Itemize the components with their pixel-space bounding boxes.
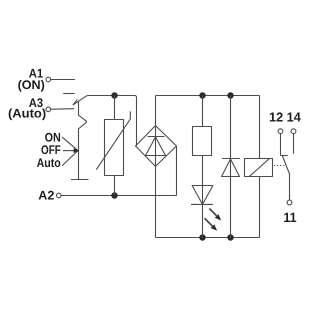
- switch S1 arm (Auto position): [73, 96, 89, 106]
- wire A2 lead: [62, 195, 177, 197]
- bridge rectifier diamond: [136, 126, 177, 167]
- switch contact tick: [74, 99, 78, 104]
- bridge inner diode cathode bar: [148, 136, 165, 138]
- mechanical link dotted: [274, 165, 284, 167]
- bridge inner diode triangle: [146, 137, 166, 156]
- wire bridge top output: [155, 96, 157, 126]
- svg-text:OFF: OFF: [41, 143, 61, 157]
- svg-text:12 14: 12 14: [269, 110, 302, 125]
- junction dot resistor tap: [199, 92, 205, 98]
- varistor bottom lead: [114, 176, 116, 196]
- diode bottom lead: [230, 177, 232, 238]
- wire contact 14: [293, 134, 295, 154]
- actuator base bar: [71, 179, 89, 181]
- wire resistor to LED: [202, 156, 204, 205]
- varistor body: [105, 120, 124, 176]
- terminal A1: [46, 77, 51, 82]
- relay coil K1 body: [245, 159, 273, 177]
- junction dot varistor bottom: [111, 192, 117, 198]
- terminal A2: [57, 193, 62, 198]
- ON pointer line: [62, 137, 78, 151]
- resistor top lead: [202, 96, 204, 127]
- LED bottom lead: [202, 204, 204, 237]
- LED light arrow 2: [205, 218, 218, 231]
- svg-text:11: 11: [283, 210, 297, 225]
- contact arm to 11: [283, 156, 290, 200]
- svg-text:(ON): (ON): [18, 78, 45, 92]
- varistor diagonal with tail: [96, 111, 130, 169]
- wire left top bus: [88, 96, 137, 147]
- bridge inner diode lead: [155, 126, 157, 167]
- OFF pointer line: [63, 150, 78, 152]
- svg-text:(Auto): (Auto): [8, 107, 46, 121]
- wire A3 lead: [51, 108, 74, 111]
- varistor top lead: [114, 96, 116, 120]
- switch actuator link: [79, 101, 87, 180]
- terminal A3: [46, 107, 51, 112]
- relay coil top feed: [259, 96, 261, 159]
- freewheeling diode top lead: [230, 96, 232, 177]
- wire contact 12: [280, 134, 282, 156]
- Auto pointer line: [62, 151, 78, 166]
- LED light arrow 1: [209, 209, 221, 221]
- terminal 12: [278, 129, 283, 134]
- wire bottom bus: [156, 237, 260, 239]
- diode cathode bar: [222, 158, 240, 160]
- LED cathode bar: [191, 203, 213, 205]
- diode triangle: [222, 159, 240, 177]
- wire bridge bottom output: [155, 166, 157, 237]
- junction dot LED bottom: [199, 234, 205, 240]
- wire bridge right AC input: [176, 146, 178, 196]
- LED triangle: [192, 186, 213, 205]
- svg-text:Auto: Auto: [37, 156, 62, 170]
- wire top right bus: [156, 95, 260, 97]
- junction dot diode tap: [227, 92, 233, 98]
- relay coil diagonal: [250, 159, 270, 177]
- contact 12 seat tick: [281, 155, 288, 157]
- pointer arrowhead: [74, 148, 80, 153]
- junction dot diode bottom: [227, 234, 233, 240]
- wire A1 lead: [51, 79, 75, 81]
- junction dot varistor tap: [111, 92, 117, 98]
- resistor body: [193, 127, 212, 156]
- terminal 14: [291, 129, 296, 134]
- switch OFF contact bar: [63, 93, 74, 95]
- terminal 11: [287, 200, 292, 205]
- relay coil bottom lead: [259, 177, 261, 238]
- svg-text:A2: A2: [38, 189, 54, 203]
